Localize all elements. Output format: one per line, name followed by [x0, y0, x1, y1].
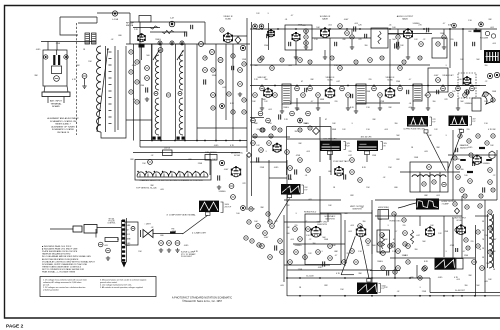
diagonal lead b	[360, 238, 369, 279]
resistor R34	[345, 31, 350, 36]
svg-text:.5: .5	[321, 251, 323, 253]
IF can T6	[282, 84, 291, 104]
T2 base blobs	[153, 137, 156, 140]
wire r2 drop 318	[317, 98, 319, 106]
svg-text:1200: 1200	[140, 85, 144, 87]
resistor R46	[465, 90, 470, 95]
resistor m5	[290, 111, 295, 116]
ground stub 0	[280, 109, 284, 113]
svg-text:1MEG: 1MEG	[283, 107, 289, 109]
svg-text:7.5 AMP: 7.5 AMP	[442, 202, 450, 205]
component r2-4	[301, 93, 306, 98]
component br-16	[378, 242, 382, 246]
terminal row2	[494, 72, 499, 77]
IF can T7	[356, 84, 366, 104]
junction dot if-152	[151, 140, 153, 142]
label video if 1	[223, 16, 233, 21]
svg-text:30% 60 CPS: 30% 60 CPS	[361, 137, 373, 139]
svg-text:4.7: 4.7	[463, 251, 466, 253]
svg-text:.005: .005	[484, 281, 488, 283]
component r1c-8	[260, 128, 264, 132]
yoke pin stack	[122, 220, 125, 223]
svg-text:.0015: .0015	[468, 147, 473, 149]
terminal SPK	[487, 73, 492, 78]
wire mid link	[126, 43, 152, 45]
wire cable lead 2	[97, 227, 121, 229]
CRT pin labels	[127, 225, 132, 245]
svg-text:.001: .001	[348, 231, 352, 233]
capacitor x-0	[267, 34, 269, 38]
resistor m1	[251, 118, 256, 123]
svg-text:.003: .003	[450, 159, 454, 161]
component lm-12	[242, 98, 246, 102]
svg-text:.5: .5	[295, 213, 297, 215]
divider ho b	[429, 172, 431, 192]
component v-4	[293, 227, 298, 232]
svg-text:4.7: 4.7	[275, 145, 278, 147]
r1 stub 1	[351, 29, 353, 34]
label mixer osc	[231, 153, 244, 158]
component r1b-1	[270, 66, 275, 71]
svg-text:150K: 150K	[492, 91, 497, 93]
wire vs rail1	[283, 215, 285, 282]
resistor ho3	[432, 180, 436, 184]
wire section divider	[251, 22, 253, 196]
waveform photo W1	[484, 50, 500, 63]
svg-text:220: 220	[295, 225, 298, 227]
component sy-4	[257, 243, 261, 247]
component v-11	[294, 250, 299, 255]
junction dot bus-372	[371, 295, 373, 297]
part tm5	[231, 54, 235, 58]
svg-text:150K: 150K	[324, 239, 329, 241]
capacitor m4	[279, 114, 281, 119]
component r1c-11	[308, 126, 312, 130]
tube V12 agc	[272, 143, 281, 152]
component r2-17	[470, 86, 475, 91]
wire row1 mid link	[312, 37, 371, 39]
component r2-5	[308, 86, 313, 91]
svg-text:AUDIO OUTPUT: AUDIO OUTPUT	[397, 15, 414, 18]
component br-6	[476, 230, 480, 234]
component hv-1	[455, 228, 459, 232]
coil L2 core line	[105, 46, 107, 132]
resistor hr6	[488, 168, 493, 173]
flyback left rail	[487, 214, 489, 268]
svg-text:► 4-WAY LIGHT: ► 4-WAY LIGHT	[192, 232, 207, 235]
svg-text:SOUND IF: SOUND IF	[320, 16, 331, 18]
terminal E2	[64, 55, 68, 59]
svg-text:470K: 470K	[132, 65, 137, 67]
svg-text:560: 560	[146, 55, 149, 57]
white box W10b	[456, 259, 463, 270]
svg-text:.02: .02	[151, 155, 154, 157]
stub 1	[355, 104, 357, 109]
component v-19	[342, 260, 347, 265]
svg-text:BOARD: BOARD	[52, 105, 60, 108]
component r1b-5	[398, 66, 403, 71]
horiz lin box	[377, 230, 390, 252]
waveform photo W2	[320, 141, 341, 152]
W2 bracket labels	[347, 143, 351, 148]
svg-text:3.3MEG: 3.3MEG	[295, 245, 302, 247]
component h-3	[396, 249, 401, 254]
wire if rail 2	[151, 44, 153, 141]
component r1b-3	[338, 66, 343, 71]
svg-text:HORIZ FREQ: HORIZ FREQ	[378, 207, 390, 209]
wire r2 drop 348	[347, 98, 349, 106]
terminal ho1	[427, 165, 432, 170]
capacitor C21	[241, 206, 246, 211]
IF top tp b	[170, 41, 174, 45]
svg-text:220K: 220K	[198, 163, 203, 165]
resistor hr2	[456, 175, 461, 180]
svg-text:.003: .003	[456, 279, 460, 281]
svg-text:390: 390	[461, 169, 464, 171]
svg-text:.0047: .0047	[434, 75, 439, 77]
component h-4	[406, 244, 411, 249]
component br-3	[465, 205, 469, 209]
wire lm rail	[133, 44, 135, 141]
wire row2 low b	[356, 102, 400, 104]
label ant input board	[50, 100, 63, 109]
resistor R11	[145, 66, 150, 71]
svg-text:.005: .005	[308, 199, 312, 201]
wire vs link	[320, 212, 372, 214]
component lm-13	[242, 110, 246, 114]
wire rf top	[96, 17, 98, 23]
IF top tp a	[158, 41, 162, 45]
component sy-0	[249, 207, 253, 211]
coil L3 right line	[125, 46, 127, 132]
B- bus	[287, 295, 500, 297]
junction dot if-161	[160, 140, 162, 142]
wire row2 low	[290, 102, 330, 104]
plug symbol P2	[141, 230, 154, 238]
divider ho a	[419, 172, 421, 192]
r1 stub gnd 1	[350, 45, 354, 49]
pointer w5	[448, 132, 462, 170]
component v-16	[303, 255, 308, 260]
selector base line	[137, 176, 208, 178]
component r2-11	[398, 86, 403, 91]
resistor m7	[306, 111, 311, 116]
W5 tag	[460, 129, 464, 132]
vert osc box	[305, 214, 341, 265]
waveform photo W6 composite	[199, 201, 219, 212]
junction dot r1-278	[277, 28, 279, 30]
component r1b-0	[258, 58, 263, 63]
component v-6	[306, 227, 311, 232]
resistor R7	[199, 42, 204, 47]
svg-text:6SN7GTB: 6SN7GTB	[317, 224, 327, 226]
wire vs rail4	[344, 220, 346, 266]
resistor a2	[259, 148, 264, 153]
tube V7 sound det	[463, 76, 472, 85]
fine tuning box	[205, 155, 217, 161]
capacitor x-4	[397, 42, 399, 46]
resistor R3 box	[139, 16, 151, 23]
capacitor x-1	[289, 42, 291, 46]
svg-text:6CB6: 6CB6	[327, 80, 333, 82]
component lm-8	[219, 80, 223, 84]
svg-text:.02: .02	[111, 39, 114, 41]
resistor R18	[148, 160, 153, 165]
wire board lead b	[63, 97, 65, 104]
svg-text:220: 220	[451, 39, 454, 41]
svg-text:253716: 253716	[164, 148, 170, 150]
capacitor dm-c2	[473, 162, 475, 166]
test point S2	[259, 24, 264, 29]
component r1c-2	[308, 60, 312, 64]
resistor dm-s1	[460, 159, 466, 161]
wire if right rail	[246, 18, 248, 152]
notes box border	[40, 277, 156, 297]
wire br low2	[370, 270, 400, 272]
wire board base	[44, 86, 68, 92]
component lm-1	[135, 60, 139, 64]
test point M3	[220, 104, 225, 109]
wire row2 bus	[250, 85, 480, 87]
resistor hr3	[468, 179, 473, 184]
svg-text:1MEG: 1MEG	[377, 261, 383, 263]
ground vb2	[167, 248, 171, 252]
junction dot bplus-300	[299, 277, 301, 279]
wire vert rail a	[371, 210, 373, 254]
terminal E1	[44, 55, 48, 59]
svg-text:SCHEMATIC LOCATED: SCHEMATIC LOCATED	[52, 128, 75, 131]
resistor R31	[304, 41, 309, 46]
junction dot r2-356	[355, 85, 357, 87]
component r2-13	[441, 86, 446, 91]
svg-text:.047: .047	[336, 81, 340, 83]
W5 bracket	[470, 117, 472, 126]
svg-text:330K: 330K	[320, 99, 325, 101]
svg-text:.5: .5	[267, 13, 269, 15]
svg-text:4.7: 4.7	[459, 123, 462, 125]
coil L2 rf	[97, 46, 101, 132]
wire ant drop b	[56, 42, 58, 51]
svg-text:100: 100	[286, 233, 289, 235]
svg-text:6CB6: 6CB6	[225, 19, 231, 21]
capacitor hv-3	[456, 248, 458, 252]
wire vert rail b	[379, 210, 381, 254]
diagonal yoke lead	[183, 215, 208, 234]
tube V11 sync sep	[334, 166, 344, 176]
component br-18	[403, 242, 407, 246]
wire drop v4	[295, 41, 297, 65]
wire r2 drop 380	[379, 98, 381, 106]
ground r2 297	[295, 106, 299, 110]
component sy-1	[247, 220, 251, 224]
wire r2 drop 458	[457, 98, 459, 106]
svg-text:.003: .003	[404, 255, 408, 257]
svg-text:.22: .22	[485, 81, 488, 83]
svg-text:.003: .003	[350, 225, 354, 227]
IF transformer T3 left rail	[175, 48, 177, 140]
tube V3 mixer	[231, 166, 241, 177]
video det box	[428, 68, 448, 92]
wire r2 drop 297	[296, 98, 298, 106]
svg-text:B+ 140V: B+ 140V	[306, 276, 314, 278]
note alignment text	[47, 117, 79, 134]
svg-text:.02: .02	[383, 177, 386, 179]
component sd-1	[484, 92, 488, 96]
ground r2 380	[378, 106, 382, 110]
flyback winding	[489, 214, 493, 268]
svg-text:PEAK SIGNAL, +/- VOLTAGE ITEMS: PEAK SIGNAL, +/- VOLTAGE ITEMS	[42, 271, 76, 274]
tube V15 vert out	[356, 226, 366, 237]
test point S5	[479, 22, 484, 27]
component r2-15	[456, 86, 461, 91]
CRT socket rail	[121, 220, 123, 262]
svg-text:.01: .01	[285, 19, 288, 21]
stub 2	[412, 101, 414, 106]
capacitor hb5	[387, 270, 389, 275]
svg-text:680: 680	[118, 35, 121, 37]
svg-text:ON PAGE 16: ON PAGE 16	[57, 131, 70, 134]
wire left rail	[129, 13, 131, 44]
junction dot r1-390	[389, 28, 391, 30]
wire board lead a	[47, 97, 49, 104]
component lm-7	[211, 68, 215, 72]
capacitor C30	[354, 26, 356, 31]
component r1c-5	[380, 56, 384, 60]
label w6	[225, 204, 232, 208]
resistor vb1	[159, 241, 164, 246]
svg-text:SYNC SEP 7AU7: SYNC SEP 7AU7	[333, 160, 350, 163]
svg-text:.003: .003	[408, 107, 412, 109]
svg-text:PLATE SHOWN ARE OSCILLOSCOPE: PLATE SHOWN ARE OSCILLOSCOPE	[42, 250, 78, 253]
wire vc h3	[293, 243, 345, 245]
svg-text:120K: 120K	[366, 91, 371, 93]
junction dot r2-428	[427, 85, 429, 87]
component lm-10	[211, 106, 215, 110]
wire sync-vert link	[284, 199, 341, 201]
W4 bracket labels	[433, 119, 437, 124]
wire vs rail3	[319, 176, 321, 222]
svg-text:.5: .5	[419, 287, 421, 289]
svg-text:.5: .5	[289, 101, 291, 103]
svg-text:CONTROL: CONTROL	[107, 223, 115, 225]
tube V17 horiz osc	[425, 226, 435, 236]
capacitor C1A	[53, 50, 60, 65]
svg-text:MIXER OSC: MIXER OSC	[231, 153, 244, 155]
wire drop s-right	[462, 29, 464, 86]
resistor R20	[229, 184, 234, 189]
svg-text:PAGE 2: PAGE 2	[6, 324, 24, 330]
svg-text:ALIGNMENT AND ADJUSTMENT: ALIGNMENT AND ADJUSTMENT	[47, 117, 79, 120]
tube V2 video if	[223, 32, 233, 42]
component r1b-4	[368, 58, 373, 63]
channel selector switch wafer	[137, 172, 208, 177]
label horiz hold	[304, 212, 317, 214]
capacitor x-9	[351, 94, 353, 98]
junction dot bplus-420	[419, 277, 421, 279]
W8 tag	[367, 279, 371, 282]
wire row3 bus b	[252, 136, 290, 138]
wire plate link	[150, 31, 186, 33]
part tm7	[231, 110, 235, 114]
r1 stub b 0	[305, 40, 307, 45]
wire r2 drop 262	[261, 98, 263, 106]
label audio output	[397, 15, 414, 21]
component r1c-7	[418, 56, 422, 60]
svg-text:220K: 220K	[298, 269, 303, 271]
resistor R36	[378, 31, 381, 44]
svg-text:390: 390	[313, 243, 316, 245]
diamond net D4	[247, 153, 252, 158]
junction dot if-197	[196, 140, 198, 142]
svg-text:3.3MEG: 3.3MEG	[483, 163, 490, 165]
capacitor a5	[257, 157, 259, 162]
wire drop v5	[329, 38, 331, 86]
svg-text:390: 390	[395, 123, 398, 125]
label vb notes	[181, 252, 196, 259]
waveform photo W10	[435, 258, 456, 270]
component lm-5	[135, 100, 139, 104]
svg-text:390: 390	[295, 131, 298, 133]
wire row3 drop	[319, 117, 321, 162]
wire right rail	[496, 150, 498, 200]
test point S1	[253, 24, 258, 29]
test point m6	[298, 118, 303, 123]
svg-text:.5: .5	[265, 151, 267, 153]
junction dot r2-275	[274, 85, 276, 87]
svg-text:560: 560	[372, 245, 375, 247]
r1 stub part 2	[396, 35, 400, 39]
junction dot bplus-410	[409, 277, 411, 279]
junction dot bus-420	[419, 295, 421, 297]
resistor hb3	[423, 266, 428, 271]
svg-text:220: 220	[471, 241, 474, 243]
component r2-14	[449, 93, 454, 98]
part tm4	[220, 28, 224, 32]
W8 bracket	[379, 284, 381, 293]
transformer T1	[85, 33, 96, 44]
svg-text:.5: .5	[425, 33, 427, 35]
svg-text:1200: 1200	[464, 255, 468, 257]
junction dot r2-297	[296, 85, 298, 87]
component r2-9	[372, 86, 377, 91]
wire r2 drop 428	[427, 98, 429, 106]
junction dot r2-390	[389, 85, 391, 87]
diamond net D2	[313, 128, 320, 135]
slug line	[117, 50, 119, 130]
component br-7	[488, 226, 492, 230]
r1 stub part 0	[304, 35, 308, 39]
svg-text:.047: .047	[222, 87, 226, 89]
resistor a4	[285, 150, 290, 155]
tube V5 sound if 2	[320, 27, 330, 37]
svg-text:6AQ5: 6AQ5	[402, 18, 408, 21]
junction dot r1-347	[346, 28, 348, 30]
resistor R21	[231, 195, 236, 200]
wire row1 bus	[250, 28, 497, 30]
svg-text:VIDEO DET: VIDEO DET	[442, 75, 454, 77]
svg-text:4.7: 4.7	[311, 101, 314, 103]
component dp-0	[458, 134, 462, 138]
svg-text:6AU8: 6AU8	[322, 18, 328, 21]
ground stub 4	[323, 55, 327, 59]
wire w7 top link	[269, 177, 287, 179]
diamond net D3	[455, 208, 460, 214]
ground audio	[406, 55, 410, 59]
r1 stub b 2	[397, 40, 399, 45]
capacitor x-2	[335, 42, 337, 46]
component v-14	[268, 255, 273, 260]
svg-text:.22: .22	[493, 175, 496, 177]
